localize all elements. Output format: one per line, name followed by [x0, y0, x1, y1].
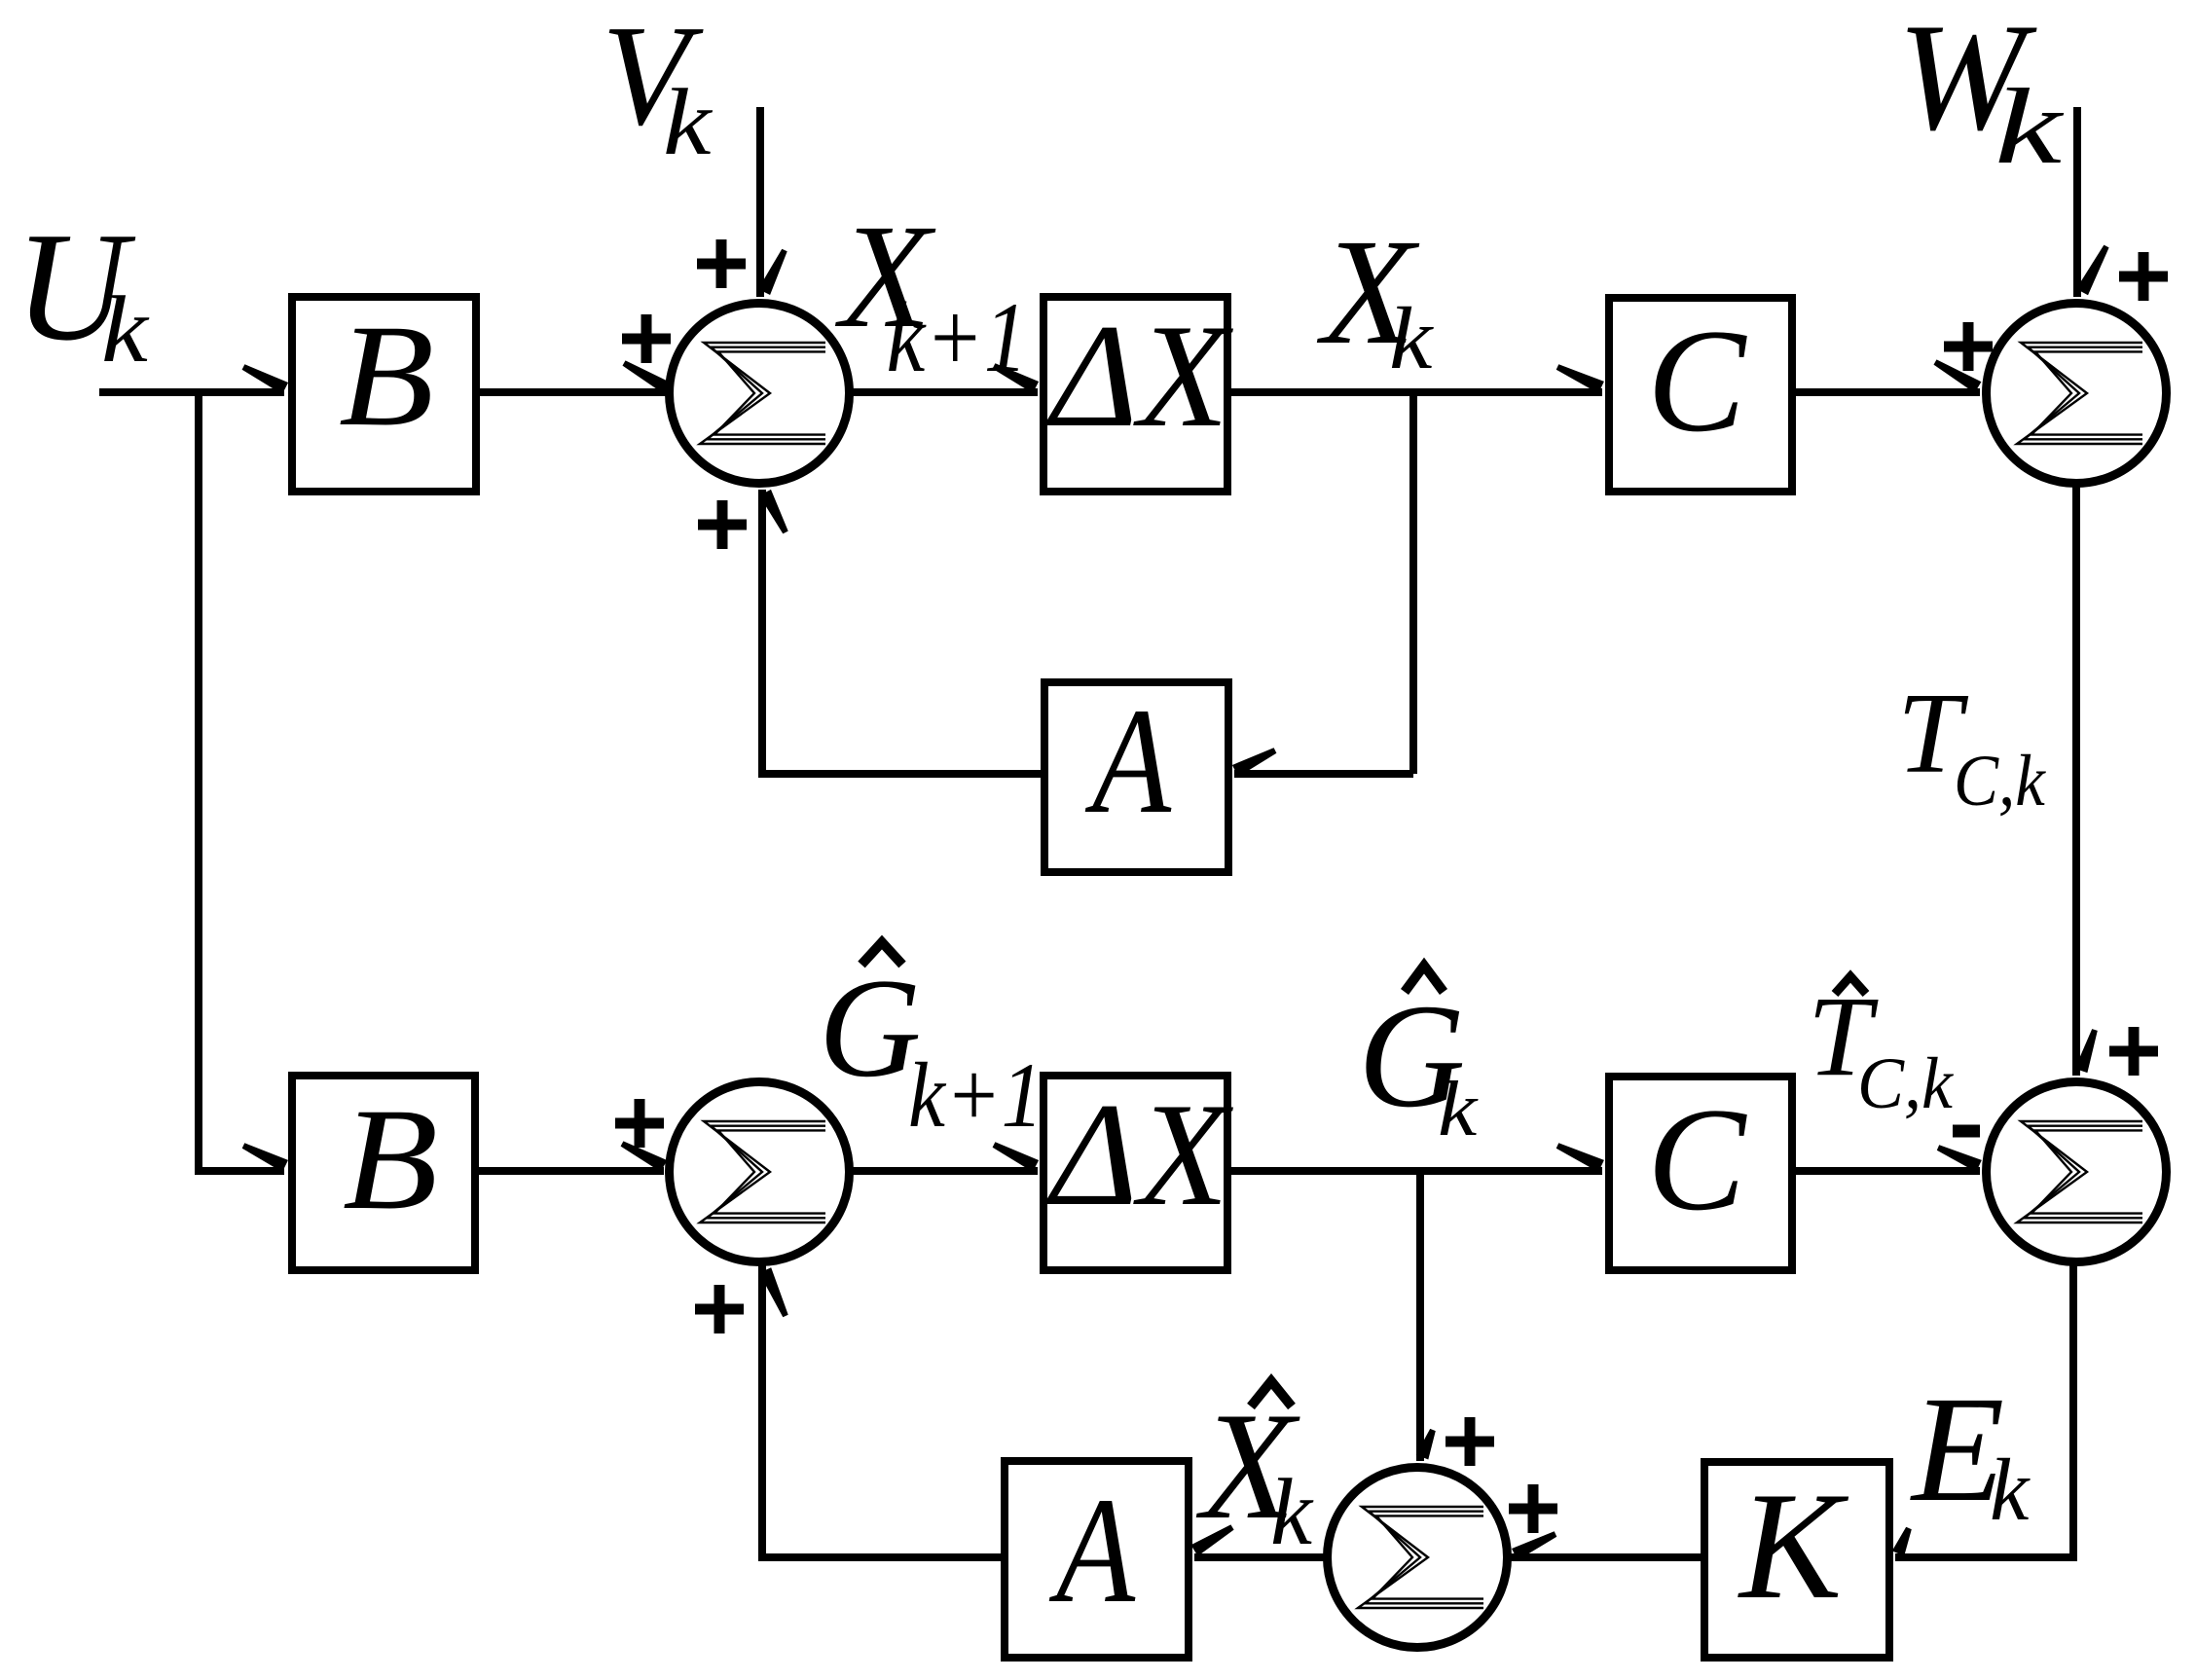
svg-text:G: G: [819, 949, 921, 1107]
arrow into sum1: [623, 360, 670, 392]
arrow into K: [1892, 1527, 1912, 1556]
arrow into DX1: [993, 363, 1040, 393]
plus sum4 left: [615, 1099, 664, 1148]
wire sum4 to DX2: [850, 1167, 1038, 1175]
arrow into C2: [1556, 1143, 1604, 1172]
wire A2 to sum4: [758, 1264, 1001, 1561]
node branch to lower B: [195, 388, 284, 1171]
svg-text:A: A: [1049, 1467, 1136, 1634]
block B2: [292, 1076, 475, 1270]
svg-text:k: k: [101, 276, 150, 382]
svg-text:k: k: [663, 70, 713, 175]
arrow into A2: [1191, 1524, 1234, 1555]
wire DX1 to C1: [1231, 388, 1602, 396]
sigma sum4: [700, 1121, 825, 1223]
svg-text:C,k: C,k: [1857, 1042, 1954, 1124]
wire C2 to sum5: [1796, 1167, 1980, 1175]
wire B2 to sum4: [479, 1167, 664, 1175]
arrow into sum3 right: [1512, 1531, 1556, 1560]
wire U_k input: [99, 388, 284, 396]
hat of T_Ck est: [1835, 976, 1866, 994]
svg-text:C: C: [1647, 1077, 1747, 1241]
summer sum3: [1328, 1468, 1508, 1648]
svg-text:K: K: [1738, 1461, 1849, 1631]
svg-text:C: C: [1647, 299, 1747, 462]
wire sum1 to DX1: [850, 388, 1038, 396]
arrow into sum5 top: [2075, 1029, 2098, 1073]
svg-text:k: k: [1438, 1064, 1479, 1151]
plus sum2 top: [2119, 252, 2168, 301]
sigma sum2: [2017, 343, 2142, 444]
plus sum1 left: [622, 314, 671, 363]
plus sum1 bottom: [698, 500, 747, 549]
block DX2: [1043, 1076, 1227, 1270]
wire B1 to sum1: [480, 388, 666, 396]
plus sum3 top: [1446, 1417, 1494, 1466]
sigma sum1: [700, 343, 825, 444]
wire V_k down: [756, 107, 764, 297]
node X_k branch: [1409, 388, 1417, 774]
wire C1 to sum2: [1796, 388, 1980, 396]
svg-text:B: B: [339, 295, 434, 457]
plus sum2 left: [1944, 322, 1993, 371]
plus sum4 bottom: [695, 1285, 744, 1333]
arrow into sum5 left: [1937, 1145, 1982, 1172]
wire sum5 to K: [1895, 1262, 2077, 1557]
arrow Wk into sum2: [2076, 245, 2109, 296]
svg-text:ΔX: ΔX: [1045, 294, 1233, 457]
svg-text:ΔX: ΔX: [1045, 1073, 1233, 1236]
sigma sum5: [2017, 1121, 2142, 1223]
svg-text:k: k: [1389, 289, 1434, 387]
arrow into sum3 top: [1416, 1429, 1436, 1460]
plus sum3 right: [1509, 1484, 1557, 1533]
arrow Vk into sum1: [758, 249, 787, 295]
arrow into DX2: [993, 1142, 1040, 1172]
wire A1 to sum1: [762, 490, 1041, 778]
arrow into sum4: [621, 1141, 668, 1172]
arrow into sum2: [1934, 359, 1982, 392]
hat of G_k: [1405, 966, 1444, 992]
plus sum5 top: [2109, 1027, 2158, 1076]
svg-text:A: A: [1085, 677, 1172, 845]
wire W_k down: [2073, 107, 2081, 297]
svg-text:k: k: [1995, 67, 2064, 186]
summer sum2: [1987, 304, 2167, 484]
block K: [1704, 1462, 1889, 1658]
svg-text:k: k: [1990, 1441, 2031, 1539]
arrow into B1: [242, 364, 289, 394]
wire DX2 to C2: [1231, 1167, 1602, 1175]
minus sum5 left: [1953, 1125, 1980, 1138]
plus sum1 top: [697, 239, 746, 288]
arrow into sum4 bottom: [759, 1267, 788, 1317]
sigma sum3: [1358, 1507, 1483, 1608]
summer sum1: [670, 304, 850, 484]
wire sum3 to A2: [1194, 1553, 1327, 1561]
svg-text:B: B: [343, 1078, 438, 1240]
block B1: [292, 297, 476, 492]
arrow into B2: [242, 1143, 288, 1172]
block DX1: [1043, 297, 1227, 492]
block C1: [1609, 298, 1792, 492]
block C2: [1609, 1077, 1792, 1270]
svg-text:k: k: [1270, 1460, 1314, 1564]
wire K to sum3: [1510, 1553, 1701, 1561]
summer sum4: [670, 1082, 850, 1262]
node T_Ck wire: [2072, 484, 2080, 1076]
wire branch to A1: [1234, 770, 1413, 778]
block A2: [1005, 1461, 1189, 1658]
hat of X_k est: [1251, 1381, 1292, 1406]
svg-text:k+1: k+1: [908, 1043, 1043, 1147]
node G_k branch: [1416, 1167, 1424, 1461]
arrow into sum1 bottom: [759, 490, 788, 534]
arrow into A1: [1232, 748, 1277, 777]
summer sum5: [1987, 1082, 2167, 1262]
arrow into C1: [1556, 364, 1604, 393]
hat of G_k+1: [861, 942, 902, 965]
block A1: [1044, 682, 1228, 872]
svg-text:C,k: C,k: [1954, 740, 2047, 821]
